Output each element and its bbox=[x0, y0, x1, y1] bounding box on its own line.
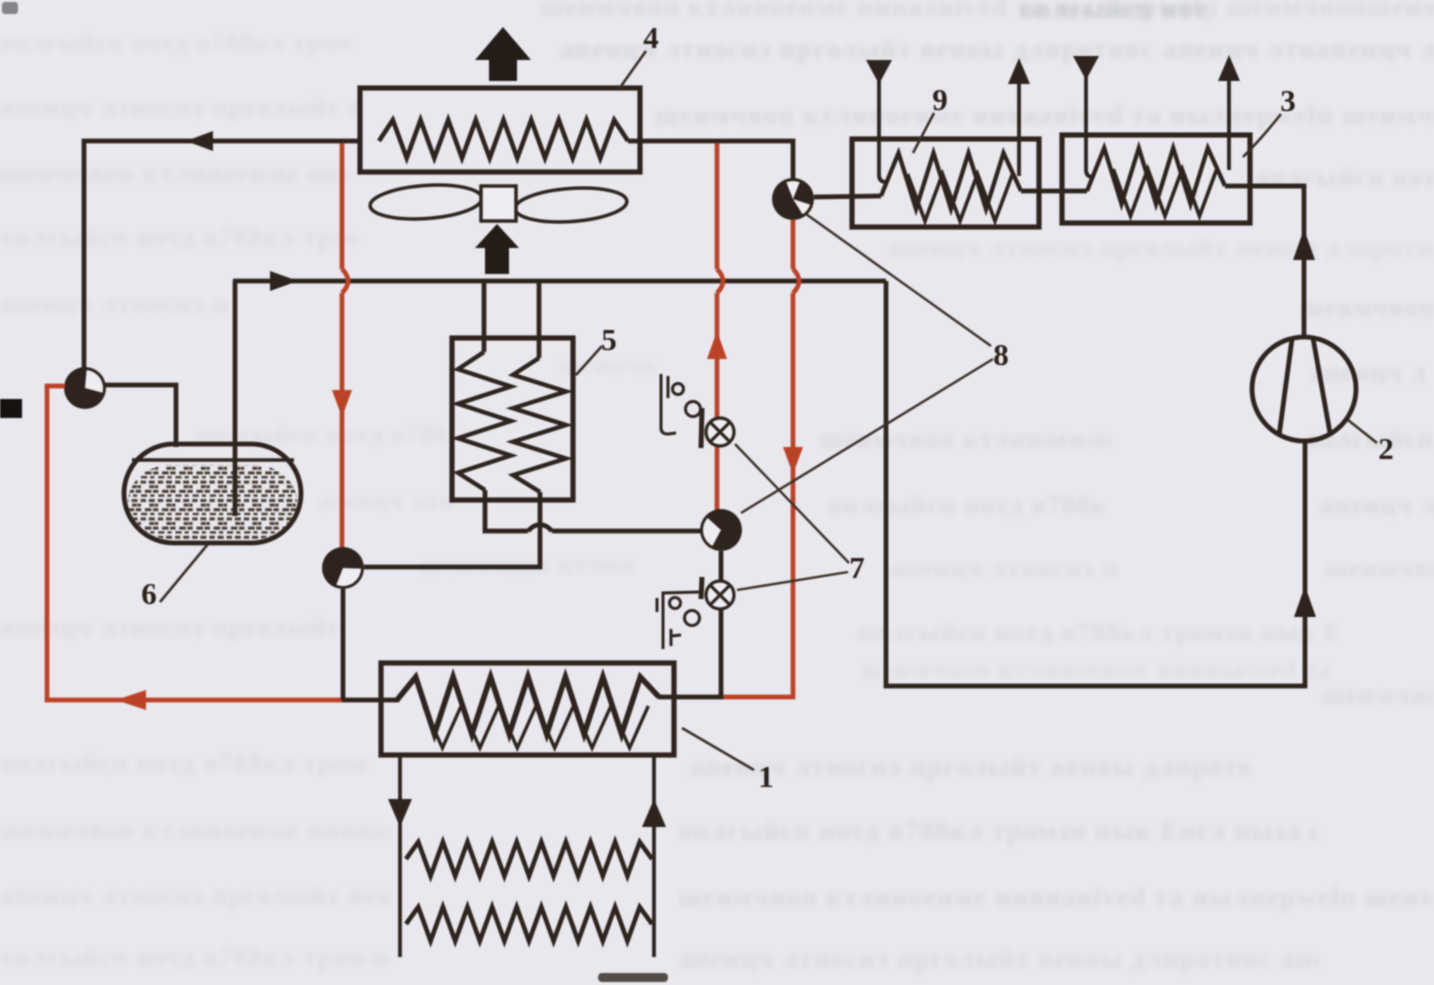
fan of condenser 4 bbox=[369, 182, 628, 226]
svg-text:8: 8 bbox=[993, 337, 1009, 372]
flow arrow (right) on main header bbox=[270, 271, 298, 291]
expansion valve 7a (upper, in red line) bbox=[706, 418, 734, 446]
label 1 pointer line bbox=[682, 728, 754, 770]
svg-text:4: 4 bbox=[643, 20, 659, 55]
water inlet arrow (down) of exchanger 9 bbox=[866, 60, 892, 84]
water outlet arrow (up) of exchanger 3 bbox=[1218, 55, 1240, 81]
flow arrow (up) on compressor suction riser bbox=[1294, 586, 1316, 617]
label 4 pointer line bbox=[619, 51, 646, 89]
label 2 pointer line bbox=[1348, 420, 1377, 443]
receiver 6 (liquid receiver vessel) bbox=[124, 444, 301, 543]
label 7 pointer lines bbox=[735, 444, 849, 590]
valve V2 (shut-off valve, liquid line) bbox=[322, 547, 364, 589]
ground coil row B bbox=[406, 907, 652, 941]
scan artifact: black mark at left margin bbox=[0, 399, 22, 418]
wire: main horizontal header bbox=[233, 279, 886, 284]
wire: exchanger 5 left coil to three-way valve 8b (jump over pipe) bbox=[485, 490, 701, 531]
water inlet pipe of exchanger 9 bbox=[879, 80, 886, 182]
three-way valve 8a (top, condenser selector) bbox=[772, 178, 814, 220]
svg-text:6: 6 bbox=[141, 576, 157, 611]
svg-text:7: 7 bbox=[849, 550, 865, 585]
heat exchanger 9 (water condenser) bbox=[852, 139, 1039, 227]
svg-text:3: 3 bbox=[1280, 83, 1296, 118]
brine supply pipe (left, down) of ground coil bbox=[398, 755, 402, 957]
wire: exchanger 5 right coil down to valve V2 bbox=[364, 492, 540, 567]
red line R3: three-way valve 8a down to evaporator outlet (jump) bbox=[722, 220, 799, 697]
wire: header into condenser 4 bbox=[628, 141, 793, 179]
label 8 pointer lines bbox=[741, 214, 993, 513]
flow arrow (left) on condenser outlet line bbox=[186, 131, 213, 151]
svg-text:9: 9 bbox=[932, 82, 948, 117]
wire: receiver dip tube up to main suction header bbox=[233, 281, 238, 516]
flow arrow (down) on red line R3 bbox=[783, 447, 803, 474]
wire: expansion valve 7b down to evaporator outlet line bbox=[658, 609, 721, 697]
wire: condenser-4 outlet line to left valve bbox=[84, 141, 360, 368]
expansion valve 7b (lower) bbox=[706, 581, 734, 609]
wire: valve 8a to water condenser 9 and through to condenser 3 bbox=[814, 186, 1304, 197]
water outlet arrow (up) of exchanger 9 bbox=[1008, 58, 1030, 84]
heat exchanger 4 (air-cooled condenser) bbox=[360, 88, 640, 172]
block arrow: air intake below fan bbox=[475, 224, 519, 274]
brine return pipe (right, up) of ground coil bbox=[652, 755, 656, 957]
ground coil row A bbox=[406, 842, 652, 876]
label 3 pointer line bbox=[1243, 114, 1281, 157]
valve V1 (shut-off valve at receiver inlet) bbox=[64, 367, 106, 409]
wire: valve V1 to receiver-6 top bbox=[105, 385, 176, 447]
svg-text:1: 1 bbox=[758, 759, 774, 794]
compressor 2 bbox=[1252, 337, 1356, 441]
scan artifact: cropped caption mark bottom centre bbox=[598, 973, 668, 982]
label 6 pointer line bbox=[160, 544, 208, 602]
thermo bulb of expansion valve 7b bbox=[657, 577, 702, 649]
flow arrow (down) on red line R1 bbox=[332, 390, 352, 417]
heat exchanger 5 (intermediate exchanger) bbox=[452, 338, 573, 500]
water outlet pipe of exchanger 9 bbox=[1017, 80, 1021, 176]
wire: compressor discharge up to condensers bbox=[1248, 186, 1304, 338]
wire: valve V2 down to evaporator 1 inlet bbox=[341, 589, 346, 700]
svg-text:5: 5 bbox=[601, 322, 617, 357]
svg-text:2: 2 bbox=[1378, 431, 1394, 466]
water inlet arrow (down) of exchanger 3 bbox=[1073, 56, 1099, 80]
heat exchanger 1 (evaporator) bbox=[381, 663, 674, 755]
red line R2: condenser outlet tee down to three-way valve 8b (jump) bbox=[717, 143, 723, 510]
flow arrow (left) on red return loop bbox=[116, 690, 146, 710]
wire: big loop to compressor (evaporator side) bbox=[886, 281, 1305, 686]
label 5 pointer line bbox=[576, 346, 602, 375]
heat exchanger 3 (water condenser) bbox=[1062, 135, 1250, 223]
label 9 pointer line bbox=[913, 113, 934, 153]
wire: red liquid return loop (left side) bbox=[47, 386, 342, 700]
red line R1: condenser inlet tee down to valve V2 (jump over header) bbox=[342, 143, 348, 548]
wire: junction into evaporator 1 bbox=[342, 698, 399, 703]
block arrow: warm air out above condenser 4 bbox=[475, 27, 531, 81]
flow arrow (up) on compressor discharge bbox=[1293, 229, 1315, 260]
thermo bulb of expansion valve 7a bbox=[661, 374, 702, 448]
wire: three-way valve 8b to expansion valve 7b bbox=[719, 551, 724, 581]
scan artifact: dark mark top-left corner bbox=[2, 2, 18, 14]
three-way valve 8b bbox=[700, 509, 742, 551]
water inlet pipe of exchanger 3 bbox=[1086, 76, 1093, 177]
brine flow arrow (down) bbox=[388, 799, 412, 827]
water outlet pipe of exchanger 3 bbox=[1227, 78, 1231, 170]
brine flow arrow (up) bbox=[642, 799, 666, 827]
wire: header risers into exchanger 5 bbox=[484, 281, 539, 358]
flow arrow (up) on red line R2 bbox=[707, 331, 727, 359]
